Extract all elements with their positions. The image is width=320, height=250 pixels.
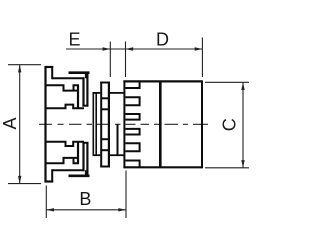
thick bar top <box>69 71 90 74</box>
V3 bottom <box>77 142 79 164</box>
flange outline (left part) <box>45 66 90 183</box>
rib 6 <box>125 161 140 168</box>
V1 bottom <box>86 142 88 177</box>
rib 5 <box>125 143 140 151</box>
svg-text:A: A <box>0 117 20 129</box>
pin right leg <box>95 93 97 155</box>
pillar top edge <box>100 82 110 84</box>
dimension C <box>205 82 249 168</box>
svg-text:C: C <box>219 118 239 131</box>
flange top tab edge <box>45 66 54 68</box>
hidden edge below axis <box>117 124 119 155</box>
pillar divider 2 <box>102 108 108 110</box>
svg-text:E: E <box>68 29 80 49</box>
rib 1 <box>125 81 140 88</box>
dimension D <box>110 38 202 78</box>
U bottom joint bottom <box>82 142 88 144</box>
flange bottom tab edge <box>45 180 54 182</box>
front face step top <box>45 105 85 109</box>
rib 4 <box>125 129 140 135</box>
bar-to-shelf connector top <box>85 73 87 79</box>
rib 3 <box>125 114 140 120</box>
pin cap top <box>93 92 101 94</box>
pillar (inner stack) <box>100 82 124 167</box>
pillar left edge <box>100 82 102 167</box>
dimension B <box>46 171 126 219</box>
body right edge <box>201 81 203 169</box>
ribbed thread column <box>123 81 202 168</box>
front face step bottom <box>45 142 85 146</box>
body left edge <box>159 81 162 167</box>
U bottom joint top <box>82 105 88 107</box>
V3 top <box>77 85 79 108</box>
pillar bottom edge <box>100 166 110 168</box>
thick bar bottom <box>69 175 90 178</box>
main body cylinder <box>160 81 202 169</box>
dimension A <box>8 65 41 184</box>
bar-to-shelf connector bottom <box>85 170 87 176</box>
collar line bottom <box>110 154 124 156</box>
rib column left edge <box>123 81 125 168</box>
mid face line bottom <box>45 158 80 163</box>
collar line top <box>110 92 124 94</box>
pillar divider 4 mirror <box>102 149 108 151</box>
V2 bottom <box>82 142 84 171</box>
V1 top <box>86 72 88 107</box>
V2 top <box>82 77 84 106</box>
pin left leg <box>92 93 94 155</box>
centerline axis <box>39 123 208 125</box>
rib 2 <box>125 97 140 105</box>
pillar divider 1 <box>102 97 108 99</box>
pillar right edge <box>108 82 110 167</box>
pillar divider 3 mirror <box>102 138 108 140</box>
svg-text:B: B <box>79 189 91 209</box>
shelf line H1 top <box>52 77 84 79</box>
barrel top line <box>123 80 202 82</box>
tab vertical top <box>51 66 53 79</box>
barrel bottom line <box>123 166 202 168</box>
flange left edge <box>44 66 46 183</box>
tab vertical bottom <box>51 169 53 182</box>
shelf line H1 bottom <box>52 169 84 171</box>
svg-text:D: D <box>156 29 169 49</box>
mid face line top <box>45 85 80 90</box>
center pin <box>93 93 101 155</box>
pin cap bottom <box>93 154 101 156</box>
dimension E <box>66 42 110 78</box>
